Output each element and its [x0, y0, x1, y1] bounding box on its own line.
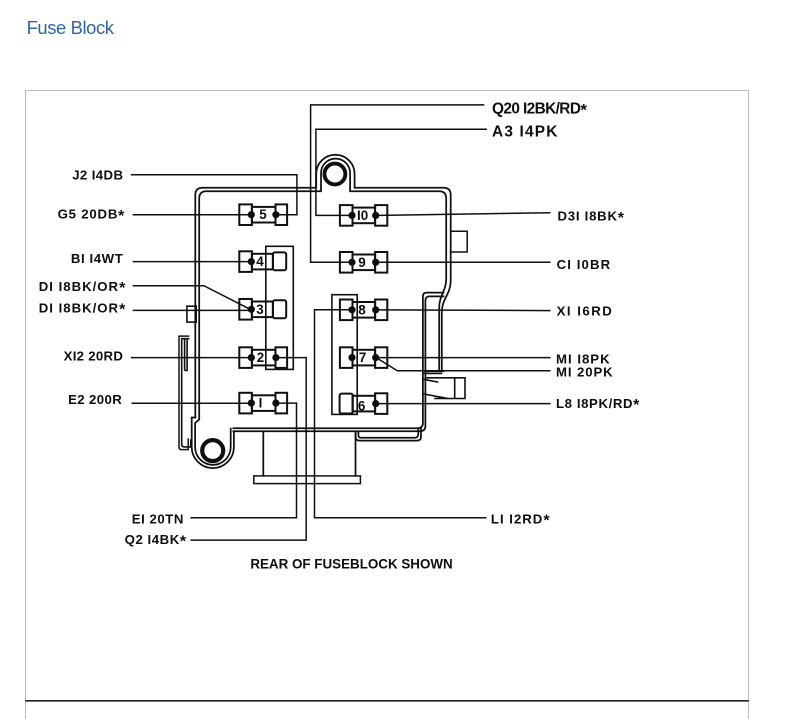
svg-text:7: 7 — [359, 350, 366, 365]
right rib joint — [425, 371, 444, 373]
svg-text:9: 9 — [358, 255, 365, 270]
wire L8 18PK/RD — [376, 403, 550, 405]
svg-text:CI I0BR: CI I0BR — [557, 257, 612, 272]
svg-text:G5 20DB*: G5 20DB* — [58, 207, 126, 225]
labels right — [491, 101, 640, 530]
right edge jog inner — [233, 293, 443, 429]
svg-text:EI 20TN: EI 20TN — [132, 511, 184, 526]
wire Q20 12BK/RD — [311, 105, 484, 262]
fuse 7 — [340, 347, 387, 368]
wire L1 12RD — [315, 310, 486, 518]
pedestal foot — [254, 476, 361, 484]
fuseblock outline outer — [195, 155, 450, 418]
fuse numbers — [256, 207, 368, 413]
svg-text:Q20 I2BK/RD*: Q20 I2BK/RD* — [492, 101, 587, 120]
mounting hole bottom — [202, 440, 223, 461]
svg-text:3: 3 — [256, 302, 263, 317]
svg-text:XI2 20RD: XI2 20RD — [64, 349, 124, 364]
wire D1 upper — [133, 286, 250, 310]
svg-text:J2 I4DB: J2 I4DB — [72, 168, 123, 183]
fuseblock outline inner — [199, 159, 446, 419]
svg-text:4: 4 — [256, 254, 264, 269]
bottom-left mounting ear inner — [195, 420, 231, 465]
left flange inner — [182, 339, 191, 447]
wire G5 20DB — [133, 214, 250, 216]
fuse 2 — [239, 347, 287, 368]
right side small tab — [451, 231, 468, 252]
fuse 4 — [239, 251, 286, 272]
svg-text:A3 I4PK: A3 I4PK — [492, 124, 559, 141]
svg-text:L8 I8PK/RD*: L8 I8PK/RD* — [556, 396, 640, 414]
svg-text:XI I6RD: XI I6RD — [557, 303, 614, 318]
fuse 8 — [340, 300, 387, 321]
fuse 3 — [239, 299, 286, 320]
fuse 6 — [340, 393, 388, 414]
svg-text:DI I8BK/OR*: DI I8BK/OR* — [39, 300, 127, 318]
wire X1 16RD — [376, 309, 550, 312]
connector tab right (wedge) — [423, 378, 465, 399]
svg-text:REAR OF FUSEBLOCK SHOWN: REAR OF FUSEBLOCK SHOWN — [250, 556, 452, 571]
fuse 10 — [340, 205, 387, 226]
svg-text:BI I4WT: BI I4WT — [71, 251, 124, 266]
right edge jog outer — [233, 296, 443, 431]
bottom right step inner — [358, 429, 418, 438]
mounting hole top — [324, 164, 345, 185]
svg-text:DI I8BK/OR*: DI I8BK/OR* — [39, 279, 127, 297]
svg-text:I: I — [259, 396, 263, 411]
svg-text:6: 6 — [358, 398, 365, 413]
bottom rule — [26, 700, 748, 702]
svg-text:I0: I0 — [357, 208, 368, 223]
left tab — [187, 306, 196, 322]
fuse 1 — [239, 393, 287, 414]
svg-text:MI 20PK: MI 20PK — [556, 365, 614, 380]
bottom right step outer — [356, 429, 421, 441]
wire J2 14DB — [132, 175, 297, 215]
svg-text:LI I2RD*: LI I2RD* — [491, 511, 551, 529]
wire D31 18BK — [376, 213, 550, 216]
wire X12 20RD — [132, 357, 250, 359]
pedestal neck — [263, 432, 355, 476]
wire D1 lower — [133, 309, 249, 311]
left flange pocket — [185, 339, 188, 371]
wire M1 20PK — [378, 359, 550, 371]
svg-text:8: 8 — [358, 302, 366, 317]
fuse terminal dots — [248, 211, 380, 407]
wire B1 14WT — [133, 261, 249, 263]
svg-text:Q2 I4BK*: Q2 I4BK* — [125, 532, 187, 550]
svg-text:5: 5 — [259, 207, 267, 222]
left connector housing — [266, 246, 294, 369]
fuse 5 — [239, 204, 287, 225]
wire C1 10BR — [376, 261, 550, 263]
wire Q2 14BK — [191, 358, 306, 540]
svg-text:2: 2 — [257, 350, 264, 365]
svg-text:E2 200R: E2 200R — [68, 392, 122, 407]
left flange outer — [179, 336, 189, 450]
wire E1 20TN — [191, 403, 296, 518]
wire A3 14PK — [316, 129, 486, 215]
bottom-left mounting ear outer — [192, 418, 234, 469]
fuse 9 — [340, 252, 387, 273]
labels left — [39, 168, 187, 551]
page title — [27, 17, 114, 39]
right connector housing — [332, 295, 357, 415]
wire E2 200R — [132, 402, 249, 404]
svg-text:D3I I8BK*: D3I I8BK* — [558, 209, 625, 227]
wire M1 18PK — [376, 357, 550, 359]
